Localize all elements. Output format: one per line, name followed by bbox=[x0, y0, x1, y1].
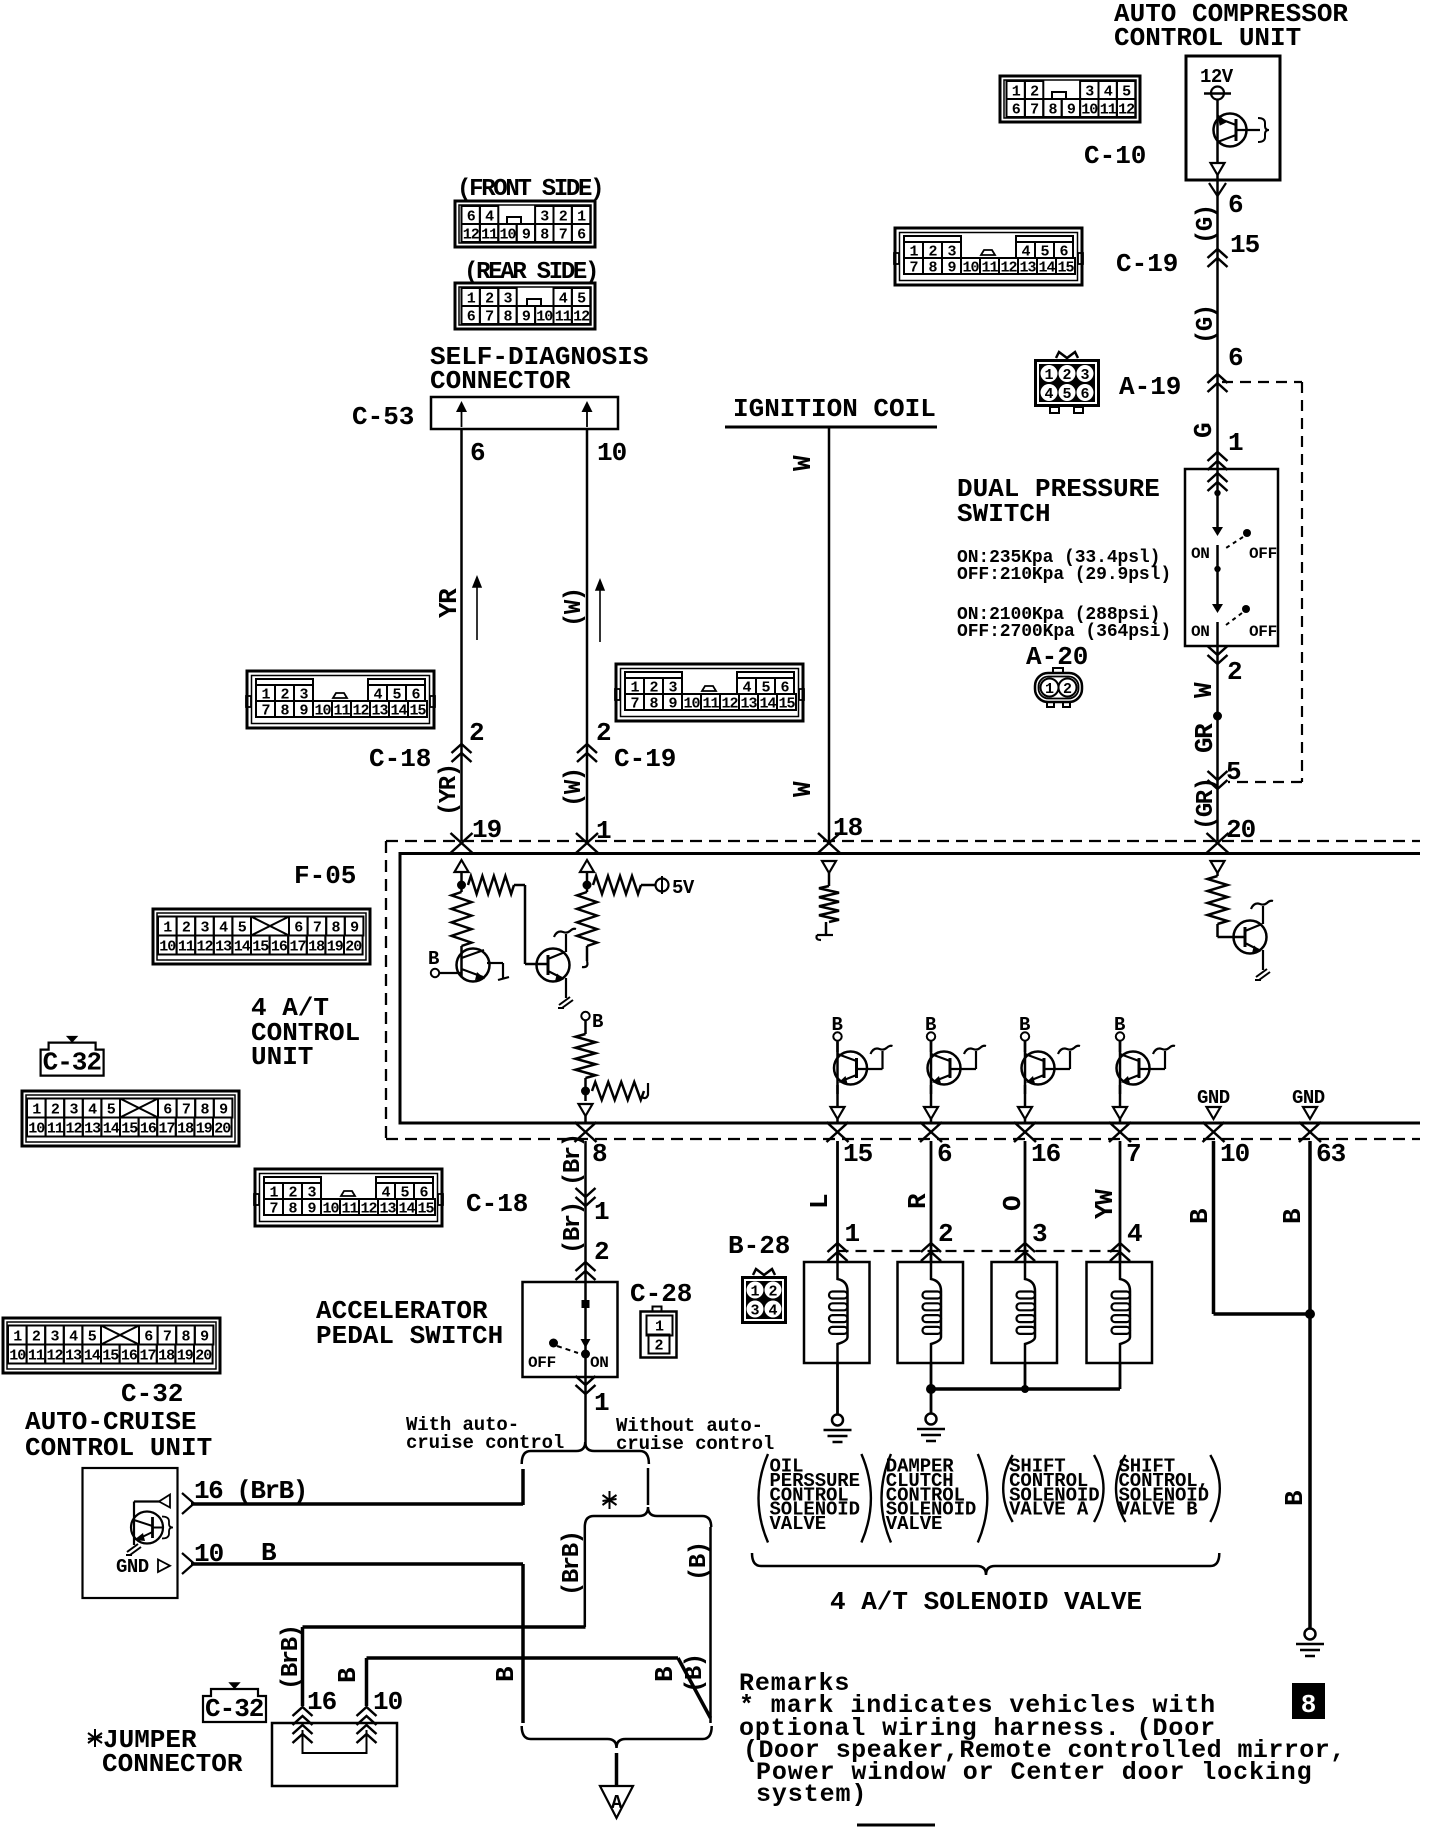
svg-text:11: 11 bbox=[555, 308, 572, 325]
connector A-20 bbox=[1035, 673, 1082, 702]
connector C-19 (mid) bbox=[616, 664, 803, 721]
svg-text:(Br): (Br) bbox=[560, 1134, 587, 1186]
wire BrB vertical below brace bbox=[584, 1527, 587, 1627]
solenoid valve box 1 bbox=[804, 1262, 870, 1363]
svg-text:4: 4 bbox=[69, 1328, 78, 1345]
svg-text:16: 16 bbox=[1031, 1139, 1061, 1169]
svg-text:W: W bbox=[788, 455, 818, 471]
connector C-32 (upper) bbox=[22, 1091, 239, 1146]
svg-text:12: 12 bbox=[352, 702, 369, 719]
svg-text:13: 13 bbox=[84, 1120, 101, 1137]
svg-text:2: 2 bbox=[559, 208, 568, 225]
svg-text:11: 11 bbox=[47, 1120, 64, 1137]
svg-text:18: 18 bbox=[308, 938, 325, 955]
star mark optional bbox=[609, 1491, 611, 1509]
svg-text:W: W bbox=[788, 781, 818, 797]
svg-text:GND: GND bbox=[1292, 1087, 1325, 1109]
svg-text:10: 10 bbox=[962, 259, 979, 276]
wire 12V to transistor bbox=[1216, 100, 1219, 115]
wire YR from self-diag pin6 bbox=[460, 429, 463, 841]
junction dot on W/GR wire bbox=[1213, 712, 1222, 721]
svg-text:CONNECTOR: CONNECTOR bbox=[102, 1749, 243, 1779]
direction arrow on YR wire bbox=[476, 581, 478, 640]
svg-text:4: 4 bbox=[768, 1303, 777, 1320]
output triangle driver 2 bbox=[924, 1107, 938, 1119]
connector crossing C-19 chevrons bbox=[1208, 249, 1228, 258]
svg-text:CONNECTOR: CONNECTOR bbox=[430, 366, 571, 396]
svg-text:9: 9 bbox=[350, 919, 359, 936]
accelerator pedal switch box bbox=[523, 1282, 618, 1377]
svg-text:(BrB): (BrB) bbox=[559, 1531, 586, 1596]
svg-text:10: 10 bbox=[536, 308, 553, 325]
svg-text:YR: YR bbox=[434, 588, 464, 618]
svg-text:16: 16 bbox=[271, 938, 288, 955]
connector C-32 boxed label bbox=[41, 1043, 104, 1076]
svg-text:6: 6 bbox=[163, 1101, 172, 1118]
svg-text:19: 19 bbox=[177, 1347, 194, 1364]
svg-text:19: 19 bbox=[327, 938, 344, 955]
svg-text:5: 5 bbox=[238, 919, 247, 936]
svg-text:(W): (W) bbox=[561, 588, 588, 627]
svg-text:C-32: C-32 bbox=[121, 1379, 183, 1409]
brace split accelerator wire bbox=[522, 1442, 649, 1464]
switch internal wire bbox=[1216, 469, 1219, 527]
connector crossing A-19 chevrons bbox=[1208, 374, 1228, 383]
svg-text:6: 6 bbox=[937, 1139, 952, 1169]
svg-text:8: 8 bbox=[200, 1101, 209, 1118]
svg-text:14: 14 bbox=[234, 938, 251, 955]
svg-text:20: 20 bbox=[214, 1120, 231, 1137]
svg-text:16: 16 bbox=[140, 1120, 157, 1137]
svg-text:9: 9 bbox=[522, 308, 531, 325]
svg-text:YW: YW bbox=[1090, 1189, 1120, 1219]
X crossing pin 6 bbox=[920, 1122, 942, 1142]
svg-text:1: 1 bbox=[32, 1101, 41, 1118]
svg-text:2: 2 bbox=[1063, 681, 1072, 698]
svg-text:19: 19 bbox=[196, 1120, 213, 1137]
svg-text:14: 14 bbox=[103, 1120, 120, 1137]
svg-text:1: 1 bbox=[594, 1197, 610, 1227]
svg-text:7: 7 bbox=[559, 226, 567, 243]
svg-text:3: 3 bbox=[1032, 1219, 1048, 1249]
label JUMPER CONNECTOR bbox=[94, 1729, 96, 1747]
arrow pin 10 inside self-diag box bbox=[586, 405, 588, 427]
X crossing pin 19 bbox=[451, 833, 473, 853]
svg-text:B: B bbox=[1280, 1490, 1310, 1506]
svg-text:12: 12 bbox=[46, 1347, 63, 1364]
svg-text:GND: GND bbox=[1197, 1087, 1230, 1109]
svg-text:7: 7 bbox=[163, 1328, 171, 1345]
svg-text:OFF:2700Kpa (364psi): OFF:2700Kpa (364psi) bbox=[957, 622, 1171, 642]
svg-text:3: 3 bbox=[750, 1303, 759, 1320]
wire L solenoid 3 bbox=[1024, 1141, 1027, 1262]
svg-text:4 A/T SOLENOID VALVE: 4 A/T SOLENOID VALVE bbox=[830, 1587, 1142, 1617]
svg-text:11: 11 bbox=[981, 259, 998, 276]
pin 19 input triangle bbox=[455, 860, 469, 872]
svg-text:18: 18 bbox=[177, 1120, 194, 1137]
svg-text:2: 2 bbox=[1030, 83, 1039, 100]
B input circle mid bbox=[581, 1012, 589, 1020]
svg-text:5: 5 bbox=[1122, 83, 1131, 100]
svg-text:12: 12 bbox=[1118, 101, 1135, 118]
svg-text:6: 6 bbox=[144, 1328, 153, 1345]
X crossing pin 18 bbox=[818, 833, 840, 853]
wire L solenoid 2 bbox=[930, 1141, 933, 1262]
svg-text:ON: ON bbox=[1191, 623, 1210, 641]
svg-text:6: 6 bbox=[470, 438, 486, 468]
Y junction below compressor box bbox=[1209, 183, 1226, 196]
svg-text:VALVE B: VALVE B bbox=[1119, 1499, 1198, 1521]
svg-text:4: 4 bbox=[1104, 83, 1113, 100]
svg-text:6: 6 bbox=[294, 919, 303, 936]
svg-text:8: 8 bbox=[288, 1200, 297, 1217]
svg-text:10: 10 bbox=[1081, 101, 1098, 118]
svg-text:12: 12 bbox=[196, 938, 213, 955]
junction dot mid bbox=[581, 1087, 590, 1096]
wire to A bbox=[615, 1753, 619, 1786]
wire W from ignition coil bbox=[828, 427, 831, 841]
svg-text:2: 2 bbox=[768, 1284, 777, 1301]
12V power source symbol bbox=[1211, 87, 1224, 100]
svg-text:B: B bbox=[491, 1666, 521, 1682]
svg-text:A: A bbox=[611, 1792, 623, 1814]
accelerator switch contacts bbox=[581, 1339, 591, 1348]
wire B vertical right below brace bbox=[709, 1527, 712, 1723]
svg-text:B: B bbox=[1185, 1208, 1215, 1224]
transistor Q8 driver 4 bbox=[1117, 1052, 1150, 1085]
dashed optional wiring from A-19 chevron bbox=[1222, 381, 1302, 383]
jumper connector box bbox=[272, 1723, 397, 1786]
svg-text:10: 10 bbox=[9, 1347, 26, 1364]
svg-text:F-05: F-05 bbox=[294, 861, 356, 891]
transistor Q1 in compressor unit bbox=[1214, 114, 1247, 147]
svg-text:17: 17 bbox=[158, 1120, 174, 1137]
svg-text:OFF: OFF bbox=[1249, 545, 1277, 563]
svg-text:C-19: C-19 bbox=[1116, 249, 1178, 279]
wire transistor to box bottom bbox=[1216, 147, 1219, 162]
with-cruise branch wire bbox=[521, 1469, 525, 1505]
svg-text:7: 7 bbox=[909, 259, 917, 276]
svg-text:13: 13 bbox=[1019, 259, 1036, 276]
svg-text:C-19: C-19 bbox=[614, 744, 676, 774]
X crossing pin 63 bbox=[1299, 1122, 1321, 1142]
svg-text:14: 14 bbox=[1038, 259, 1055, 276]
pin X crossing pin 1 bbox=[576, 833, 598, 853]
svg-text:11: 11 bbox=[333, 702, 350, 719]
svg-text:B: B bbox=[1278, 1208, 1308, 1224]
svg-text:UNIT: UNIT bbox=[251, 1042, 313, 1072]
jumper wire inside bbox=[303, 1730, 367, 1753]
resistor R7 vertical pin18 bbox=[819, 886, 839, 922]
svg-text:1: 1 bbox=[1012, 83, 1021, 100]
GND triangle 1 bbox=[1207, 1107, 1221, 1119]
connector B-28 bbox=[741, 1276, 787, 1324]
svg-text:4: 4 bbox=[559, 290, 568, 307]
svg-text:7: 7 bbox=[269, 1200, 277, 1217]
svg-text:B: B bbox=[650, 1666, 680, 1682]
svg-text:R: R bbox=[903, 1193, 933, 1209]
chevrons C-18 crossing on Br wire bbox=[576, 1197, 596, 1206]
wire 16 BrB horizontal bbox=[191, 1502, 523, 1506]
chevrons jumper pin10 bbox=[357, 1707, 377, 1716]
svg-text:ON: ON bbox=[590, 1354, 609, 1372]
svg-text:8: 8 bbox=[592, 1139, 607, 1169]
svg-text:1: 1 bbox=[13, 1328, 22, 1345]
svg-text:20: 20 bbox=[345, 938, 362, 955]
svg-text:W: W bbox=[1189, 682, 1219, 698]
output triangle driver 1 bbox=[831, 1107, 845, 1119]
svg-text:9: 9 bbox=[307, 1200, 316, 1217]
svg-text:13: 13 bbox=[379, 1200, 396, 1217]
svg-text:5: 5 bbox=[1226, 757, 1242, 787]
wire G from compressor unit down bbox=[1216, 180, 1219, 469]
svg-text:4: 4 bbox=[1044, 386, 1053, 403]
svg-text:13: 13 bbox=[65, 1347, 82, 1364]
junction dot pin1 bbox=[583, 881, 592, 890]
svg-text:PEDAL SWITCH: PEDAL SWITCH bbox=[316, 1321, 503, 1351]
pin 1 input triangle bbox=[580, 860, 594, 872]
junction dot pin19 bbox=[457, 881, 466, 890]
svg-text:8: 8 bbox=[540, 226, 549, 243]
wire to transistor Q3 base bbox=[524, 885, 527, 964]
wire BrB thick horizontal bbox=[303, 1625, 586, 1629]
svg-text:15: 15 bbox=[252, 938, 269, 955]
svg-text:GND: GND bbox=[116, 1556, 149, 1578]
terminal hook pin1 resistor bbox=[582, 961, 587, 967]
svg-text:4: 4 bbox=[1127, 1219, 1143, 1249]
connector C-10 bbox=[1000, 76, 1140, 122]
output triangle driver 3 bbox=[1018, 1107, 1032, 1119]
without-cruise branch wire bbox=[647, 1468, 650, 1505]
solenoid valve box 3 bbox=[992, 1262, 1058, 1363]
connector C-32 (lower) bbox=[3, 1318, 220, 1373]
svg-text:VALVE: VALVE bbox=[770, 1513, 827, 1535]
svg-text:15: 15 bbox=[102, 1347, 119, 1364]
solenoid 2 ground wire bbox=[930, 1363, 933, 1413]
chevrons inside switch top bbox=[1208, 473, 1228, 482]
chevrons jumper pin16 bbox=[293, 1707, 313, 1716]
svg-text:1: 1 bbox=[655, 1319, 664, 1336]
svg-text:12: 12 bbox=[65, 1120, 82, 1137]
resistor R1 vertical pin19 bbox=[452, 892, 472, 946]
svg-text:(B): (B) bbox=[686, 1542, 713, 1581]
svg-text:12: 12 bbox=[1000, 259, 1017, 276]
wire B thick horizontal bbox=[367, 1656, 679, 1660]
connector C-53 front side bbox=[455, 201, 595, 247]
chevrons entering accelerator switch bbox=[576, 1262, 596, 1271]
pin 10 chevron autocruise bbox=[182, 1553, 194, 1574]
svg-text:15: 15 bbox=[121, 1120, 138, 1137]
output triangle driver 4 bbox=[1113, 1107, 1127, 1119]
transistor Q2 (pin19 branch) bbox=[457, 949, 490, 982]
ground symbol right B wire bbox=[1305, 1629, 1316, 1640]
svg-text:15: 15 bbox=[1057, 259, 1074, 276]
svg-text:A-19: A-19 bbox=[1119, 372, 1181, 402]
svg-text:C-53: C-53 bbox=[352, 402, 414, 432]
svg-text:(B): (B) bbox=[682, 1654, 709, 1693]
wire W from self-diag pin10 bbox=[586, 429, 589, 841]
svg-text:B: B bbox=[428, 948, 439, 970]
svg-text:11: 11 bbox=[28, 1347, 45, 1364]
svg-text:4: 4 bbox=[88, 1101, 97, 1118]
svg-text:(GR): (GR) bbox=[1193, 778, 1220, 830]
svg-text:7: 7 bbox=[485, 308, 493, 325]
svg-text:(W): (W) bbox=[561, 768, 588, 807]
X crossing pin 15 bbox=[827, 1122, 849, 1142]
page number 8 block bbox=[1292, 1683, 1325, 1719]
svg-text:B: B bbox=[333, 1667, 363, 1683]
svg-text:11: 11 bbox=[481, 226, 498, 243]
bottom mark line bbox=[857, 1824, 935, 1827]
svg-text:5V: 5V bbox=[672, 877, 695, 899]
transistor Q3 (second, pin1 area) bbox=[537, 949, 570, 982]
resistor R6 horizontal mid bbox=[592, 1082, 644, 1100]
svg-text:O: O bbox=[998, 1195, 1028, 1211]
svg-text:17: 17 bbox=[139, 1347, 155, 1364]
svg-text:2: 2 bbox=[485, 290, 494, 307]
connector C-19 (top) bbox=[895, 228, 1082, 285]
svg-text:10: 10 bbox=[683, 695, 700, 712]
switch 2 moving contact bbox=[1212, 604, 1223, 613]
svg-text:2: 2 bbox=[938, 1219, 954, 1249]
svg-text:4: 4 bbox=[219, 919, 228, 936]
terminal hook pin18 bbox=[817, 934, 833, 936]
svg-text:7: 7 bbox=[313, 919, 321, 936]
svg-text:10: 10 bbox=[1220, 1139, 1250, 1169]
svg-text:VALVE A: VALVE A bbox=[1009, 1499, 1089, 1521]
svg-text:1: 1 bbox=[467, 290, 476, 307]
svg-text:(G): (G) bbox=[1193, 305, 1220, 344]
wire below accelerator switch bbox=[584, 1377, 587, 1446]
svg-text:6: 6 bbox=[467, 208, 476, 225]
transistor Q4 (pin20) bbox=[1234, 921, 1267, 954]
svg-text:5: 5 bbox=[88, 1328, 97, 1345]
5V supply symbol bbox=[656, 879, 669, 892]
label shift control solenoid valve B bbox=[1116, 1455, 1126, 1522]
svg-text:1: 1 bbox=[1045, 681, 1054, 698]
svg-text:8: 8 bbox=[331, 919, 340, 936]
resistor R8 vertical pin20 bbox=[1208, 876, 1228, 924]
svg-text:6: 6 bbox=[577, 226, 586, 243]
chevrons below switch bbox=[1208, 655, 1228, 664]
svg-text:OFF:210Kpa (29.9psl): OFF:210Kpa (29.9psl) bbox=[957, 565, 1171, 585]
pin 20 input triangle bbox=[1211, 861, 1225, 873]
auto-cruise transistor bbox=[131, 1512, 163, 1544]
svg-text:12: 12 bbox=[573, 308, 590, 325]
solenoid coil 4 bbox=[1120, 1262, 1130, 1363]
svg-text:63: 63 bbox=[1316, 1139, 1346, 1169]
B wire pin 63 down bbox=[1308, 1141, 1312, 1628]
svg-text:SWITCH: SWITCH bbox=[957, 499, 1051, 529]
svg-text:6: 6 bbox=[467, 308, 476, 325]
direction arrow on W wire bbox=[599, 584, 601, 642]
chevrons below accelerator switch bbox=[576, 1385, 596, 1394]
chevrons B-28 solenoid 3 bbox=[1015, 1243, 1035, 1252]
svg-text:7: 7 bbox=[1126, 1139, 1141, 1169]
svg-text:11: 11 bbox=[1100, 101, 1117, 118]
X crossing pin 16 bbox=[1014, 1122, 1036, 1142]
svg-text:9: 9 bbox=[668, 695, 677, 712]
svg-text:2: 2 bbox=[51, 1101, 60, 1118]
connector F-05 bbox=[153, 909, 370, 964]
svg-text:15: 15 bbox=[778, 695, 795, 712]
svg-text:3: 3 bbox=[1085, 83, 1094, 100]
svg-text:12V: 12V bbox=[1200, 66, 1234, 88]
svg-text:15: 15 bbox=[1230, 230, 1260, 260]
svg-text:C-18: C-18 bbox=[369, 744, 431, 774]
svg-text:10: 10 bbox=[159, 938, 176, 955]
svg-text:2: 2 bbox=[469, 718, 485, 748]
connector C-32 boxed label lower bbox=[203, 1689, 266, 1722]
svg-text:8: 8 bbox=[649, 695, 658, 712]
connector C-18 (lower) bbox=[255, 1169, 442, 1226]
brace bottom collector bbox=[522, 1726, 712, 1748]
svg-text:3: 3 bbox=[503, 290, 512, 307]
svg-text:14: 14 bbox=[759, 695, 776, 712]
svg-text:14: 14 bbox=[84, 1347, 101, 1364]
svg-text:2: 2 bbox=[1227, 657, 1243, 687]
svg-text:(Br): (Br) bbox=[560, 1202, 587, 1254]
4 A/T control unit dashed border bbox=[386, 840, 1420, 842]
svg-text:15: 15 bbox=[417, 1200, 434, 1217]
svg-text:11: 11 bbox=[178, 938, 195, 955]
chevrons B-28 solenoid 2 bbox=[921, 1243, 941, 1252]
svg-text:CONTROL UNIT: CONTROL UNIT bbox=[1114, 23, 1301, 53]
svg-text:14: 14 bbox=[398, 1200, 415, 1217]
svg-text:5: 5 bbox=[1062, 386, 1071, 403]
output triangle pin 8 bbox=[579, 1104, 593, 1116]
svg-text:C-10: C-10 bbox=[1084, 141, 1146, 171]
svg-text:C-18: C-18 bbox=[466, 1189, 528, 1219]
X crossing pin 7 bbox=[1109, 1122, 1131, 1142]
svg-text:B: B bbox=[592, 1011, 603, 1033]
svg-text:1: 1 bbox=[594, 1388, 610, 1418]
svg-text:10: 10 bbox=[499, 226, 516, 243]
pin 18 input triangle bbox=[822, 861, 836, 873]
chevrons C-18 crossing bbox=[452, 744, 472, 753]
svg-text:16 (BrB): 16 (BrB) bbox=[194, 1476, 307, 1506]
svg-text:6: 6 bbox=[1228, 190, 1244, 220]
GND triangle 2 bbox=[1303, 1107, 1317, 1119]
ignition coil bar bbox=[725, 426, 937, 429]
dashed line B-28 bbox=[838, 1250, 1121, 1252]
svg-text:7: 7 bbox=[261, 702, 269, 719]
wire L solenoid 1 bbox=[836, 1141, 839, 1262]
svg-text:1: 1 bbox=[1044, 367, 1053, 384]
triangle pointer top autocruise bbox=[159, 1495, 170, 1508]
svg-text:18: 18 bbox=[833, 813, 863, 843]
solenoid coil 2 bbox=[931, 1262, 941, 1363]
svg-text:1: 1 bbox=[163, 919, 172, 936]
svg-text:2: 2 bbox=[594, 1237, 610, 1267]
svg-text:OFF: OFF bbox=[1249, 623, 1277, 641]
svg-text:6: 6 bbox=[1012, 101, 1021, 118]
X crossing pin 20 bbox=[1207, 833, 1229, 853]
svg-text:1: 1 bbox=[845, 1219, 861, 1249]
svg-text:system): system) bbox=[756, 1780, 867, 1809]
svg-text:3: 3 bbox=[1080, 367, 1089, 384]
self-diagnosis connector box bbox=[431, 397, 618, 429]
svg-text:12: 12 bbox=[360, 1200, 377, 1217]
svg-text:C-28: C-28 bbox=[630, 1279, 692, 1309]
switch 1 moving contact bbox=[1212, 527, 1223, 536]
svg-text:11: 11 bbox=[702, 695, 719, 712]
solenoid 1 ground wire bbox=[836, 1363, 839, 1414]
connector C-53 rear side bbox=[455, 283, 595, 329]
connector C-18 (mid) bbox=[247, 671, 434, 728]
svg-text:C-32: C-32 bbox=[43, 1048, 102, 1078]
connector A-19 bbox=[1034, 359, 1100, 407]
